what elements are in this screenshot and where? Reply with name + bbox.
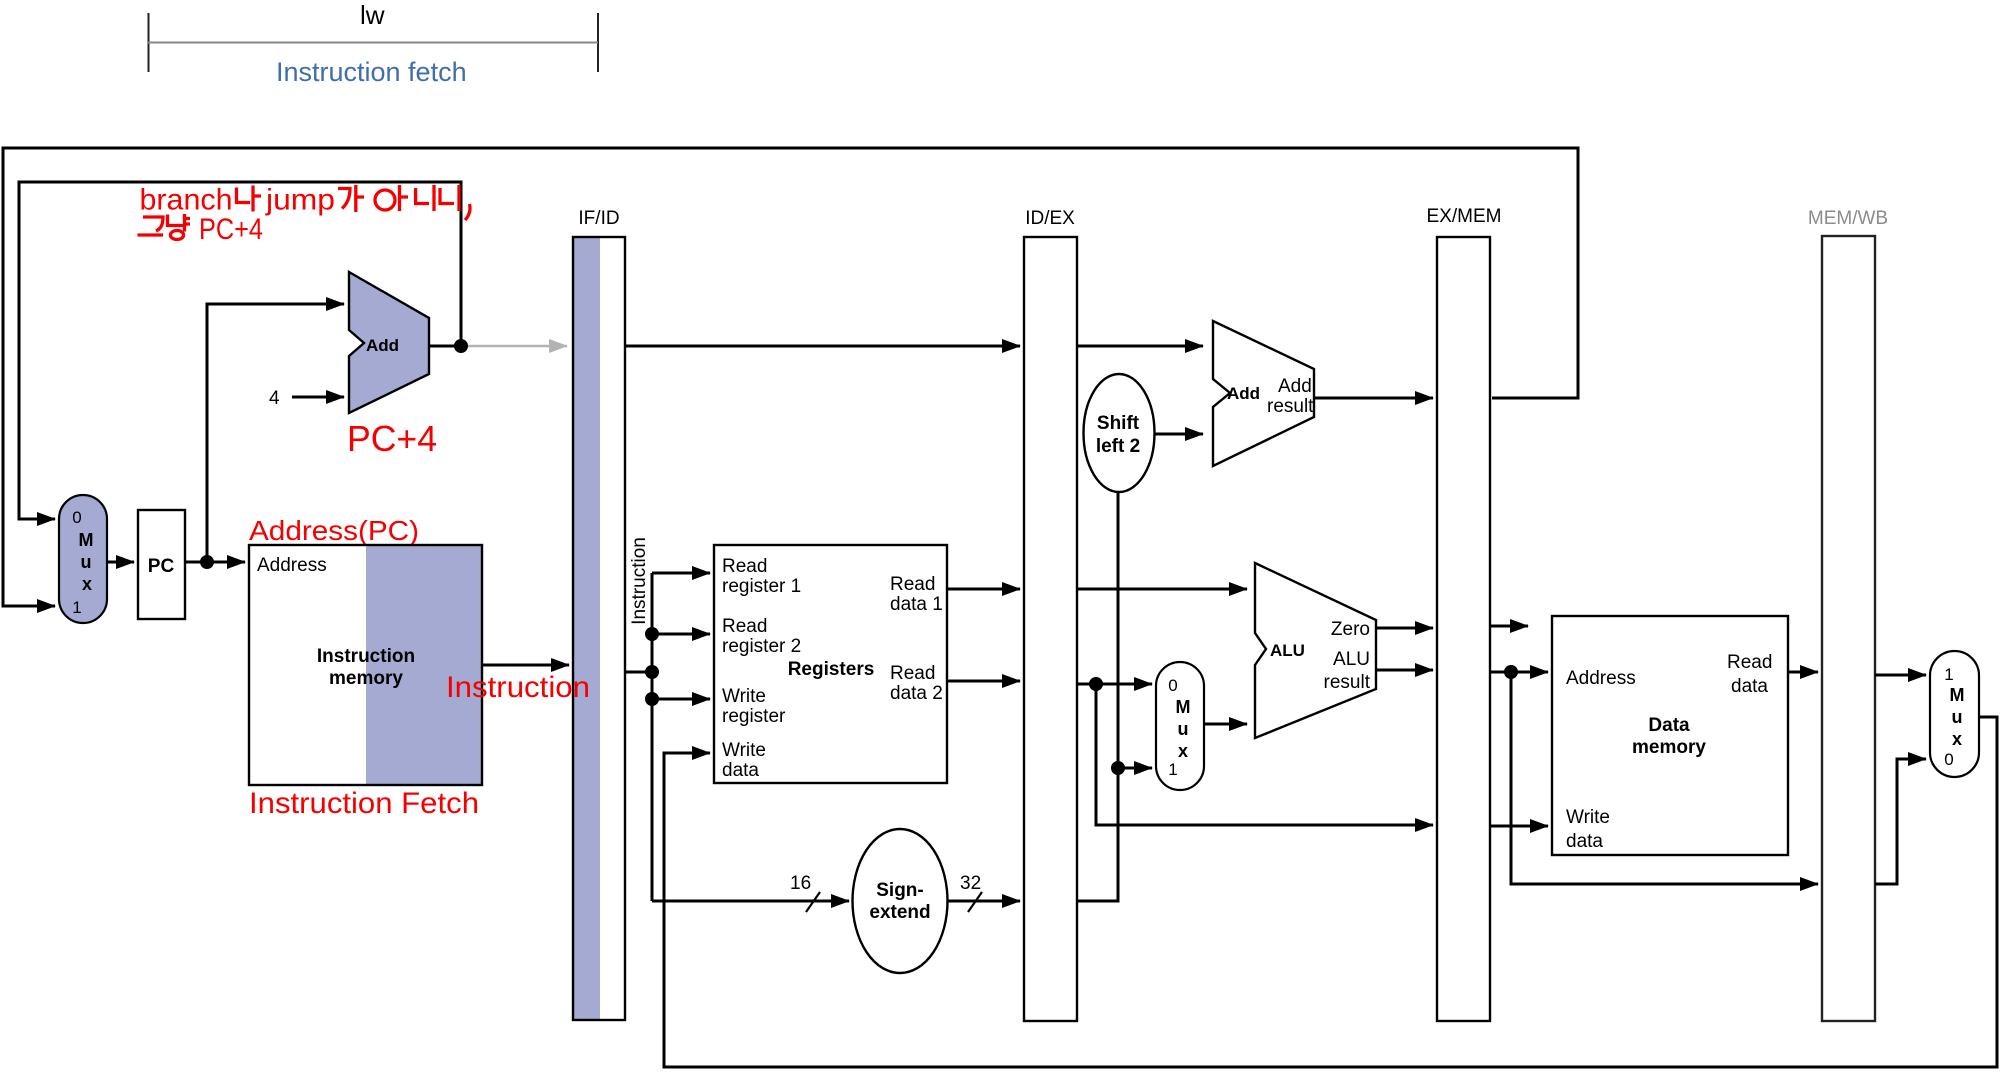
svg-text:Read: Read [890,663,935,684]
svg-text:Write: Write [722,686,766,707]
svg-text:Address(PC): Address(PC) [249,515,419,546]
svg-text:EX/MEM: EX/MEM [1427,206,1502,227]
lw bracket horizontal line [148,42,598,44]
red note line 2: 그냥 PC+4 [138,213,264,246]
svg-text:Write: Write [722,740,766,761]
wire: read data 2 down and to EX/MEM (store data) [1096,684,1433,825]
svg-text:Shift: Shift [1097,413,1140,434]
wire: PC+4 loop from Add output around to Mux input 0 [19,182,461,519]
svg-text:left 2: left 2 [1096,436,1140,457]
svg-text:u: u [1178,719,1189,739]
svg-text:0: 0 [1168,676,1177,695]
svg-text:data: data [1566,831,1603,852]
svg-text:Read: Read [1727,652,1772,673]
svg-text:data: data [1731,676,1768,697]
wire: Instruction memory to IF/ID [482,664,569,667]
svg-text:Instruction Fetch: Instruction Fetch [249,787,479,820]
svg-text:u: u [1952,707,1963,727]
wire: ALU result from MEM/WB up to mux input 0 [1875,759,1926,884]
svg-text:M: M [1176,697,1191,717]
svg-text:x: x [82,574,92,594]
svg-text:result: result [1324,672,1371,693]
svg-text:Instruction: Instruction [629,537,650,625]
wire: to Write register [652,698,710,701]
svg-text:PC+4: PC+4 [347,418,437,459]
ALU U1 [1255,563,1376,738]
wire: Add output to junction [429,345,458,348]
junction dot on ALU result [1504,665,1518,679]
svg-text:lw: lw [360,0,385,30]
wire: instruction bus from IF/ID [625,573,652,901]
wire: PC+4 from IF/ID to ID/EX [625,345,1020,348]
svg-text:1: 1 [1944,665,1953,684]
svg-text:Instruction: Instruction [446,671,590,704]
wire: 4 into Add [292,396,344,399]
wire: mux to ALU [1204,723,1247,726]
wire: Zero stub out of EX/MEM [1490,625,1528,628]
svg-text:extend: extend [869,902,930,923]
wire: Read data 1 to ID/EX [947,588,1020,591]
wire (gray): PC+4 into IF/ID [468,345,567,348]
pipeline register EX/MEM [1427,206,1502,1021]
junction dot on read data 2 [1089,677,1103,691]
svg-text:ALU: ALU [1333,649,1370,670]
svg-text:jump: jump [265,184,335,217]
svg-text:Write: Write [1566,807,1610,828]
ellipse Sign-extend [853,829,948,973]
svg-text:0: 0 [1944,750,1953,769]
svg-text:data 1: data 1 [890,594,943,615]
lw bracket right tick [597,13,599,72]
junction dot at PC output [200,555,214,569]
ellipse Shift left 2 [1084,374,1155,492]
pipeline register IF/ID [573,208,625,1020]
svg-text:Read: Read [890,574,935,595]
wire: branch target to EX/MEM [1314,397,1433,400]
wire: sign-extended value from ID/EX up to Shift left 2 [1077,492,1118,901]
pipeline register MEM/WB [1808,208,1888,1021]
red note line 1: branch나 jump가 아니니, [140,184,470,221]
svg-text:Zero: Zero [1331,619,1370,640]
svg-text:x: x [1952,729,1962,749]
wire: Sign-extend output to ID/EX [948,900,1021,903]
junction dot on sign-extend line [1111,761,1125,775]
svg-text:Registers: Registers [788,659,875,680]
svg-text:Add: Add [1227,384,1260,403]
wire: store data from EX/MEM to Data memory Write data [1490,825,1548,828]
svg-text:M: M [1950,685,1965,705]
wire: ALU result to EX/MEM [1376,669,1433,672]
junction dots on instruction bus [645,627,659,641]
svg-text:memory: memory [329,668,403,689]
junction dot at Add output [454,339,468,353]
pipeline register ID/EX [1024,208,1077,1021]
svg-text:Sign-: Sign- [876,880,924,901]
svg-text:memory: memory [1632,737,1706,758]
svg-text:register 2: register 2 [722,636,801,657]
wire: read data 1 from ID/EX to ALU [1077,588,1247,591]
wire: Read data 2 to ID/EX [947,680,1020,683]
svg-text:PC+4: PC+4 [199,213,263,246]
svg-text:M: M [79,530,94,550]
svg-text:32: 32 [960,873,981,894]
svg-text:1: 1 [1168,760,1177,779]
wire: to Read register 1 [652,572,710,575]
wire: to Sign-extend [652,900,849,903]
mux M2 (ALUSrc) [1156,662,1204,790]
wire: Mux to PC [107,561,134,564]
svg-text:Data: Data [1648,715,1690,736]
wire: read data 2 from ID/EX to ALU mux input 0 [1077,683,1152,686]
wire: branch-target loop from EX/MEM around top to Mux input 1 [3,148,1578,606]
wire: sign-extended value to ALU mux input 1 [1118,767,1152,770]
svg-text:4: 4 [269,388,280,409]
wire: write-back path to Registers Write data [664,717,1997,1067]
wire: ALU result from EX/MEM to Data memory Address [1490,671,1548,674]
adder Add (PC+4) [349,272,429,413]
svg-text:u: u [81,552,92,572]
wire: memory read data from MEM/WB to mux input 1 [1875,674,1926,677]
svg-text:Add: Add [366,336,399,355]
mux M1 (PC source mux) [59,495,107,623]
wire: PC+4 from ID/EX to branch Add [1077,345,1203,348]
svg-text:data: data [722,760,759,781]
svg-text:ALU: ALU [1270,641,1305,660]
svg-text:branch: branch [140,184,233,217]
svg-text:Read: Read [722,616,767,637]
svg-text:register 1: register 1 [722,576,801,597]
lw bracket left tick [148,13,150,72]
adder Add (branch target) [1213,321,1314,466]
svg-text:PC: PC [148,556,175,577]
mux M3 (write-back mux) [1930,651,1979,777]
svg-text:Instruction fetch: Instruction fetch [276,57,467,87]
memory: Instruction memory [249,545,482,785]
wire: PC to Instruction memory Address [185,561,245,564]
svg-text:0: 0 [72,508,81,527]
wire: Read data to MEM/WB [1788,671,1818,674]
wire: to Read register 2 [652,633,710,636]
svg-text:Address: Address [257,555,327,576]
wire: Zero to EX/MEM [1376,627,1433,630]
svg-text:Add: Add [1278,376,1312,397]
svg-text:IF/ID: IF/ID [578,208,619,229]
svg-text:1: 1 [72,598,81,617]
svg-text:result: result [1267,396,1314,417]
wire: Shift left 2 to branch Add [1155,433,1204,436]
memory: Data memory [1552,616,1788,855]
svg-text:x: x [1178,741,1188,761]
svg-text:16: 16 [790,873,811,894]
svg-text:Read: Read [722,556,767,577]
block Registers [714,545,947,783]
svg-text:register: register [722,706,786,727]
register PC [138,510,185,619]
svg-text:MEM/WB: MEM/WB [1808,208,1888,229]
svg-text:data 2: data 2 [890,683,943,704]
svg-text:ID/EX: ID/EX [1025,208,1075,229]
svg-text:Address: Address [1566,668,1636,689]
svg-text:Instruction: Instruction [317,646,415,667]
wire: PC value up to Add input [207,304,344,562]
wire: ALU result bypass to MEM/WB [1511,672,1818,884]
